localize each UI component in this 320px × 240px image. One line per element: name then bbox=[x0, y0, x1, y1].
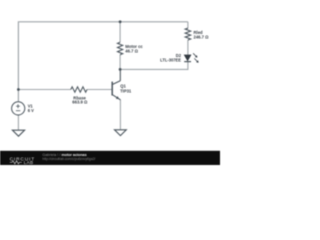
wire Rled top lead bbox=[187, 22, 189, 28]
svg-text:663.9 Ω: 663.9 Ω bbox=[72, 100, 88, 105]
wire Rbase to Q1 base bbox=[87, 89, 112, 91]
wire emitter to ground bbox=[119, 100, 121, 130]
label Rbase value bbox=[72, 95, 88, 104]
node junction dot collector bbox=[119, 68, 122, 71]
transistor Q1 bbox=[112, 69, 120, 99]
svg-text:6 V: 6 V bbox=[28, 108, 34, 113]
svg-text:246.7 Ω: 246.7 Ω bbox=[194, 34, 210, 39]
node junction dot V1-base bbox=[17, 88, 20, 91]
resistor Rled bbox=[185, 28, 190, 40]
watermark credit text line 1 bbox=[42, 153, 95, 161]
svg-text:LTL-307EE: LTL-307EE bbox=[160, 58, 181, 63]
label V1 value bbox=[28, 104, 34, 113]
LED emission arrow 2 bbox=[194, 58, 197, 61]
voltage source V1 bbox=[12, 102, 25, 115]
label D2 LTL-307EE bbox=[160, 53, 182, 63]
svg-text:46.7 Ω: 46.7 Ω bbox=[125, 48, 138, 53]
LED emission arrow 1 bbox=[193, 53, 196, 56]
label Q1 TIP31 bbox=[120, 84, 132, 94]
node junction dot top rail motor branch bbox=[119, 20, 122, 23]
wire top rail from V1 up over to Rled branch bbox=[18, 22, 188, 102]
resistor Motor cc bbox=[118, 42, 123, 54]
resistor Rbase bbox=[71, 87, 87, 92]
wire base run from V1 node to Rbase bbox=[18, 89, 70, 91]
label Rled value bbox=[194, 30, 210, 39]
ground under V1 bbox=[12, 130, 24, 136]
svg-text:http://circuitlab.com/c/pu6zxv: http://circuitlab.com/c/pu6zxvy6ga2/ bbox=[42, 157, 95, 161]
svg-text:LAB: LAB bbox=[24, 160, 34, 165]
wire motor bottom to collector node bbox=[119, 55, 121, 70]
svg-text:TIP31: TIP31 bbox=[120, 89, 132, 94]
label Motor cc value bbox=[125, 44, 143, 53]
wire Rled bottom lead to LED anode bbox=[187, 40, 189, 55]
wire collector node to LED cathode bbox=[120, 62, 188, 70]
ground under Q1 emitter bbox=[115, 130, 127, 136]
watermark bar bbox=[0, 151, 220, 165]
CircuitLab logo bbox=[10, 156, 35, 165]
LED D2 bbox=[184, 53, 198, 62]
Q1 emitter arrowhead bbox=[116, 96, 119, 99]
wire motor branch upper lead bbox=[119, 22, 121, 43]
wire V1 minus lead bbox=[17, 115, 19, 130]
